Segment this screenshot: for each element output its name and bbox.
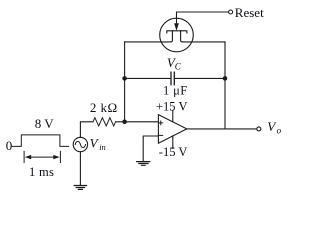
junction cap-right bbox=[223, 76, 228, 81]
dimension arrow 1 ms bbox=[25, 155, 60, 159]
svg-text:o: o bbox=[277, 126, 282, 136]
wire transistor drain to left rail bbox=[125, 41, 171, 43]
source Vin (AC) bbox=[73, 137, 87, 151]
wire right rail bbox=[224, 42, 226, 129]
op-amp U1 bbox=[158, 115, 186, 144]
wire transistor source to right rail bbox=[182, 41, 225, 43]
wire output bbox=[187, 128, 257, 130]
transistor Q1 (reset switch) bbox=[160, 18, 194, 52]
waveform pulse bbox=[12, 135, 68, 147]
junction cap-left bbox=[122, 76, 127, 81]
dimension ticks bbox=[24, 151, 60, 162]
ground source bbox=[74, 186, 86, 190]
label 2 kOhm bbox=[90, 100, 118, 115]
svg-text:-15 V: -15 V bbox=[159, 145, 188, 159]
svg-text:Reset: Reset bbox=[235, 5, 264, 20]
wire reset gate lead bbox=[177, 12, 229, 25]
label 1 ms bbox=[29, 165, 54, 179]
junction input node bbox=[122, 120, 127, 125]
svg-text:C: C bbox=[175, 61, 182, 71]
terminal Vo (open circle) bbox=[257, 127, 261, 131]
ground op-amp bbox=[137, 162, 150, 166]
svg-text:2 kΩ: 2 kΩ bbox=[90, 100, 118, 115]
terminal Reset (open circle) bbox=[229, 10, 233, 14]
svg-text:8 V: 8 V bbox=[35, 116, 55, 131]
svg-text:1 ms: 1 ms bbox=[29, 165, 54, 179]
wire left rail bbox=[124, 42, 126, 122]
power stub +15 V bbox=[172, 111, 174, 122]
label 0 bbox=[6, 138, 13, 153]
power stub -15 V bbox=[172, 136, 174, 148]
svg-text:0: 0 bbox=[6, 138, 13, 153]
label Reset bbox=[235, 5, 264, 20]
svg-text:1 μF: 1 μF bbox=[163, 83, 188, 97]
wire resistor to op-amp bbox=[116, 121, 159, 123]
label 8 V bbox=[35, 116, 55, 131]
wire source top to resistor bbox=[80, 122, 93, 138]
svg-text:in: in bbox=[99, 142, 106, 152]
label VC bbox=[167, 55, 182, 72]
svg-text:V: V bbox=[90, 135, 100, 150]
svg-text:+15 V: +15 V bbox=[156, 99, 187, 113]
label +15 V bbox=[156, 99, 187, 113]
label Vo bbox=[267, 119, 281, 135]
wire inverting input to ground bbox=[143, 136, 158, 161]
label Vin bbox=[90, 135, 106, 152]
label 1 uF bbox=[163, 83, 188, 97]
label -15 V bbox=[159, 145, 188, 159]
wire source bottom bbox=[79, 152, 81, 185]
capacitor C1 bbox=[125, 72, 225, 85]
resistor R1 bbox=[93, 118, 116, 126]
